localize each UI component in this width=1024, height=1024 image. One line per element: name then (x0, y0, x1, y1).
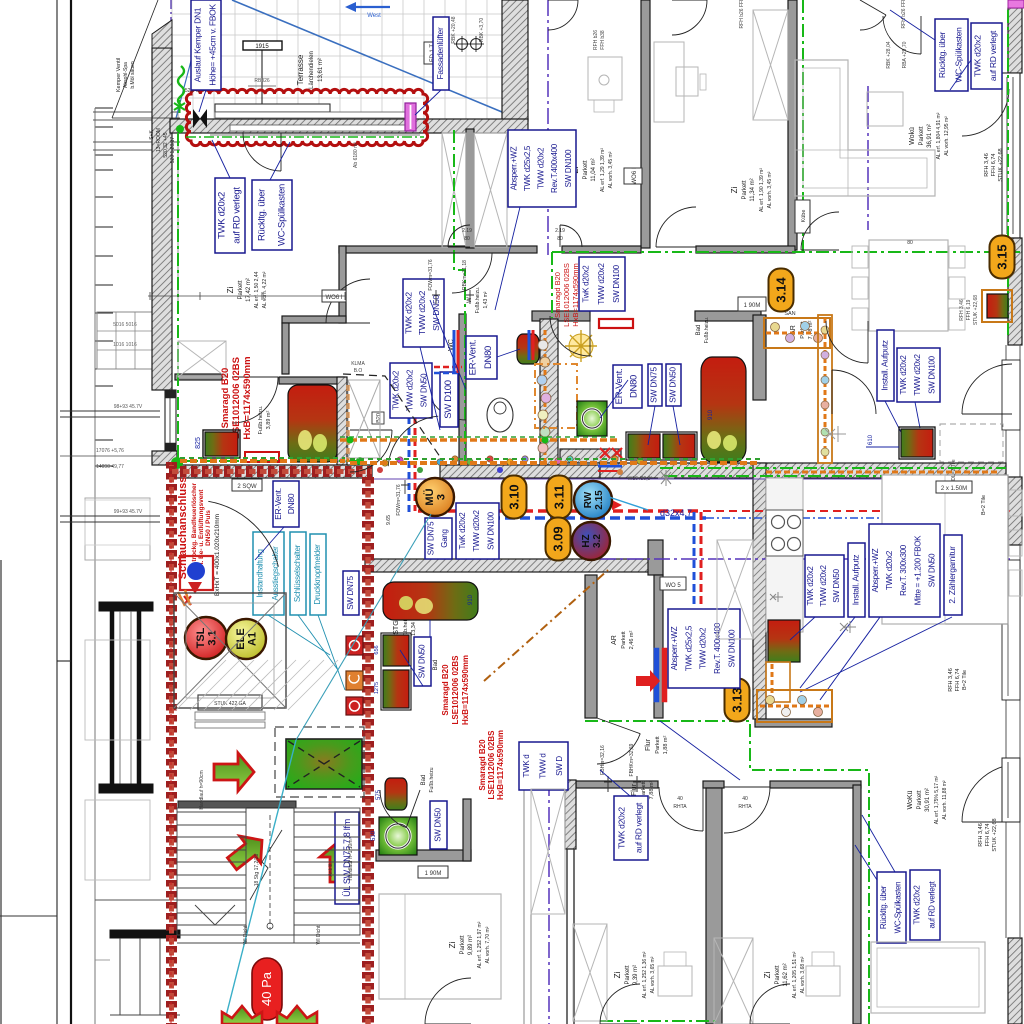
svg-text:Bad: Bad (696, 325, 702, 336)
pipe band right bath top (766, 471, 1000, 474)
Kuebe box (795, 200, 810, 233)
svg-text:AL erf. 1,50 2,44: AL erf. 1,50 2,44 (254, 271, 260, 308)
svg-text:Parkett: Parkett (919, 126, 925, 145)
bottom green arrows partial (222, 1006, 262, 1024)
AR door arc (597, 734, 640, 764)
WO6 box (322, 290, 346, 302)
svg-text:SW D: SW D (555, 756, 564, 776)
svg-text:AL vorh. 3,68 m²: AL vorh. 3,68 m² (800, 956, 806, 993)
orange dashed diagonal (484, 570, 608, 681)
svg-text:80: 80 (907, 240, 913, 246)
UEL box (335, 812, 359, 904)
svg-text:HxB=1174x590mm: HxB=1174x590mm (242, 356, 253, 439)
svg-text:TWK d20x2: TWK d20x2 (216, 192, 227, 239)
svg-text:98+93 45.7V: 98+93 45.7V (114, 404, 143, 410)
red grab bar (599, 319, 633, 328)
pipes risers multicolor at shaft (347, 385, 350, 462)
svg-text:Antritt: Antritt (328, 863, 334, 877)
washing machine bottom (379, 817, 417, 855)
svg-text:Druckknopfmelder: Druckknopfmelder (313, 544, 322, 605)
svg-text:WO6 I: WO6 I (632, 167, 638, 184)
right bath door arc (832, 370, 876, 414)
shower area dashes right bath (940, 424, 1003, 462)
window in left wall (165, 390, 176, 451)
svg-text:Instandhaltung: Instandhaltung (256, 549, 265, 597)
MUE sphere (0, 0, 1, 1)
hall orange pipe band (340, 438, 618, 442)
svg-text:SW D100: SW D100 (443, 380, 454, 419)
svg-text:Handlauf h=1,10m: Handlauf h=1,10m (348, 839, 354, 880)
svg-text:TWW d20x2: TWW d20x2 (472, 509, 481, 551)
svg-text:1275: 1275 (374, 682, 380, 694)
door arcs bottom rooms (659, 787, 703, 831)
bottom center pier (565, 780, 576, 849)
svg-text:RFH b26: RFH b26 (593, 30, 599, 50)
sofa bottom right (871, 942, 985, 1013)
svg-text:RHTA: RHTA (673, 804, 687, 810)
bottom rooms divider (706, 788, 722, 1024)
svg-text:Parkett: Parkett (917, 790, 923, 809)
wall left exterior upper (152, 48, 172, 390)
dim marks corridor bottom (401, 480, 409, 494)
kitchen leaders (790, 617, 815, 640)
svg-text:TWW d20x2: TWW d20x2 (597, 262, 606, 304)
wall right below window (1008, 238, 1022, 345)
bathtub center (701, 357, 746, 462)
svg-text:TWK d20x2: TWK d20x2 (617, 807, 627, 849)
svg-text:AL erf. 1,90 1,39 m²: AL erf. 1,90 1,39 m² (759, 168, 765, 212)
dim marks near WC (466, 290, 474, 304)
bed room2 (753, 10, 788, 120)
kemper leader (112, 0, 158, 118)
vanity band right bath (764, 318, 830, 348)
HZ sphere (0, 0, 1, 1)
svg-text:STUK +22,68: STUK +22,68 (992, 818, 998, 851)
svg-text:AL vorh. 3,45 m²: AL vorh. 3,45 m² (767, 171, 773, 208)
svg-text:Kemper Ventil: Kemper Ventil (116, 58, 122, 92)
svg-text:AR: AR (611, 635, 618, 645)
B20 tag (372, 412, 384, 424)
svg-text:TWK d25x2,5: TWK d25x2,5 (684, 625, 693, 671)
ER-Vent DN80 box center-left (466, 336, 497, 379)
pipe band corridor 460 (350, 461, 760, 465)
AR room walls (648, 540, 663, 575)
box TWK auf RD verlegt (215, 178, 245, 253)
top rooms divider walls (641, 0, 650, 248)
svg-text:mit trockg. Bandfeuerlöscher: mit trockg. Bandfeuerlöscher (191, 482, 198, 573)
stairs (177, 808, 360, 943)
svg-text:RBK +28,04: RBK +28,04 (886, 41, 892, 68)
svg-text:TWK d20x2: TWK d20x2 (404, 292, 414, 334)
svg-text:2 SQW: 2 SQW (237, 484, 257, 490)
kitchen sink (768, 620, 800, 662)
svg-text:TWK d20x2: TWK d20x2 (885, 550, 894, 590)
svg-text:Gang: Gang (440, 529, 449, 547)
thin purple line corridor (374, 478, 1006, 480)
svg-text:DN50 / Puls: DN50 / Puls (205, 510, 212, 546)
boxes rueck top right (935, 19, 968, 91)
svg-text:13=ROOM: 13=ROOM (156, 128, 162, 152)
svg-text:TWK d25x2,5: TWK d25x2,5 (523, 145, 532, 191)
svg-text:2,46 m²: 2,46 m² (629, 631, 635, 650)
bathtub bottom-center bath (383, 582, 478, 620)
svg-text:HxB=1174x590mm: HxB=1174x590mm (496, 730, 505, 800)
SW D100 box (440, 372, 458, 427)
svg-text:825: 825 (195, 437, 202, 449)
svg-text:3.13: 3.13 (730, 687, 745, 712)
washing machine center (577, 401, 607, 436)
svg-text:STUK 422 GA: STUK 422 GA (214, 701, 246, 707)
svg-text:Parkett: Parkett (655, 736, 661, 754)
svg-text:Parkett: Parkett (742, 180, 748, 199)
svg-text:3: 3 (436, 494, 448, 500)
svg-text:TWW d20x2: TWW d20x2 (819, 564, 828, 606)
ELE sphere (0, 0, 1, 1)
svg-text:WC-Spülkasten: WC-Spülkasten (894, 882, 903, 934)
svg-text:9.65: 9.65 (386, 515, 392, 525)
svg-text:Flur: Flur (631, 783, 638, 796)
svg-text:SW DN100: SW DN100 (928, 355, 937, 393)
north arrow (345, 2, 356, 12)
svg-text:Schlauchanschluss: Schlauchanschluss (177, 477, 189, 580)
svg-text:13,61 m²: 13,61 m² (318, 58, 324, 82)
svg-text:MÜ: MÜ (423, 488, 436, 505)
svg-text:n. Be- u. Entlüftungsvent: n. Be- u. Entlüftungsvent (198, 489, 205, 567)
svg-text:Fußb.heizu.: Fußb.heizu. (704, 317, 710, 343)
terrace tile grid (172, 0, 508, 119)
svg-text:Rückltg. über: Rückltg. über (256, 189, 267, 241)
svg-text:RHTA: RHTA (738, 804, 752, 810)
svg-text:auf RD verlegt: auf RD verlegt (927, 880, 936, 928)
svg-text:3.09: 3.09 (551, 526, 566, 551)
arc wokü entry (962, 89, 1009, 136)
small riser hatch near wall x537 (528, 330, 531, 360)
svg-text:AL vorh. 11,88 m²: AL vorh. 11,88 m² (942, 780, 948, 820)
svg-text:West: West (367, 13, 381, 19)
40 Pa pill (252, 958, 282, 1020)
svg-text:2. Zählergarnitur: 2. Zählergarnitur (947, 546, 957, 604)
svg-text:FOWm=31,76: FOWm=31,76 (428, 259, 434, 290)
red scalloped zone terrace wall (186, 89, 427, 145)
door arcs top rooms (656, 207, 696, 247)
svg-text:LSE1012006 02BS: LSE1012006 02BS (487, 730, 496, 800)
cyan line RW (609, 497, 648, 510)
svg-text:Absohl-Spa: Absohl-Spa (123, 62, 129, 88)
svg-text:656: 656 (374, 645, 380, 654)
svg-text:BxHxT = 400x1.020x210mm: BxHxT = 400x1.020x210mm (214, 514, 221, 596)
svg-text:Smaragd B20: Smaragd B20 (441, 664, 450, 716)
svg-text:Kübe: Kübe (801, 210, 807, 223)
coffee table (867, 92, 903, 126)
svg-text:Absperr.+WZ: Absperr.+WZ (871, 548, 880, 592)
svg-text:Flur: Flur (645, 738, 652, 751)
parapet lintels inside scallop (215, 104, 330, 112)
hall riser dashes (434, 366, 462, 369)
kitchen shaft orange (766, 662, 790, 702)
svg-text:d32x4,7: d32x4,7 (660, 508, 692, 518)
door arc bottom bath (380, 790, 406, 828)
svg-text:Handlauf h=90cm: Handlauf h=90cm (199, 770, 205, 809)
svg-text:11,62 m²: 11,62 m² (783, 963, 789, 986)
SW DN50 box center (666, 364, 681, 406)
window right top (1002, 73, 1020, 238)
svg-text:1,88 m²: 1,88 m² (663, 736, 669, 755)
svg-text:17,42 m²: 17,42 m² (246, 278, 252, 302)
bottom-center room bed (379, 894, 501, 999)
svg-text:WO 5: WO 5 (665, 583, 681, 589)
magenta top right corner (1008, 0, 1024, 8)
dining table (869, 240, 948, 331)
door arc left apartment inner (232, 377, 278, 423)
svg-text:SW DN50: SW DN50 (418, 644, 427, 678)
svg-text:SW DN50: SW DN50 (667, 367, 677, 403)
lintel beam symbol (243, 41, 282, 50)
svg-text:ER-Vent.: ER-Vent. (273, 488, 283, 520)
box Rueckltg ueber WC (252, 180, 292, 250)
sheet frame lines (56, 0, 58, 1024)
svg-text:7,88 m²: 7,88 m² (649, 781, 655, 800)
WO5 box (660, 577, 686, 590)
svg-text:Höhe= +45cm v. FBOK: Höhe= +45cm v. FBOK (207, 4, 217, 86)
svg-text:WC-Spülkasten: WC-Spülkasten (954, 27, 964, 83)
right entry big arc (962, 364, 1012, 414)
svg-text:3.15: 3.15 (995, 244, 1010, 269)
svg-text:AL vorh. 12,95 m²: AL vorh. 12,95 m² (944, 116, 950, 156)
orange pipe band corridor of flat (180, 459, 345, 463)
svg-text:TWW d20x2: TWW d20x2 (417, 290, 427, 335)
svg-text:b.Möl sauen: b.Möl sauen (130, 61, 136, 88)
right wall bottom hatch (1008, 938, 1022, 1024)
svg-text:LSE1012006 02BS: LSE1012006 02BS (451, 655, 460, 725)
svg-text:5016 5016: 5016 5016 (113, 322, 137, 328)
svg-text:B20: B20 (376, 413, 382, 423)
svg-text:910: 910 (708, 409, 714, 420)
svg-text:Mitte = +1.200 FBOK: Mitte = +1.200 FBOK (913, 535, 922, 605)
svg-text:SW DN50: SW DN50 (928, 553, 937, 587)
SW DN75 box stairwell (343, 571, 359, 615)
badge 3.14 (769, 269, 794, 312)
svg-text:Absperr.+WZ: Absperr.+WZ (509, 146, 518, 190)
TWK box bottom left (614, 796, 648, 860)
ER-Vent DN80 box center (613, 365, 642, 408)
svg-text:2.19: 2.19 (555, 228, 565, 234)
svg-text:1 90M: 1 90M (425, 871, 442, 877)
svg-text:FOWm=31,76: FOWm=31,76 (396, 484, 402, 515)
hall door arc (388, 416, 438, 466)
svg-text:WoKü: WoKü (907, 790, 914, 809)
190M box (418, 866, 448, 878)
level crosshairs (457, 39, 468, 50)
svg-text:510: 510 (371, 830, 377, 841)
svg-text:AL vorh. 3,65 m²: AL vorh. 3,65 m² (650, 956, 656, 993)
svg-text:Terrasse: Terrasse (296, 54, 305, 85)
svg-text:FFH 6,74: FFH 6,74 (991, 154, 997, 177)
svg-text:TWK d20x2: TWK d20x2 (912, 885, 921, 925)
svg-text:FFH b38: FFH b38 (600, 30, 606, 50)
washbasins bottom-center bath (383, 635, 409, 666)
svg-text:Fußb.heizu.: Fußb.heizu. (258, 405, 264, 435)
svg-text:KLMA: KLMA (351, 361, 365, 367)
badge 3.13 (725, 679, 750, 722)
svg-text:520 1,28/17: 520 1,28/17 (170, 137, 176, 164)
svg-text:3.14: 3.14 (774, 277, 789, 303)
terrace right wall (502, 0, 528, 121)
bath door arc (550, 316, 590, 356)
extra fixture dots corridor (382, 460, 388, 466)
box Fassadenluefter (433, 17, 449, 90)
elevation line stubs (95, 107, 113, 109)
svg-text:Zi: Zi (226, 286, 235, 293)
snowflake symbol (658, 470, 674, 486)
hall door arcs (350, 430, 392, 472)
svg-text:TWW d20x2: TWW d20x2 (406, 369, 415, 411)
svg-text:11,04 m²: 11,04 m² (591, 158, 597, 181)
svg-text:FFH 6,74: FFH 6,74 (955, 669, 961, 692)
svg-text:TWK d20x2: TWK d20x2 (899, 355, 908, 395)
corridor bottom wall (365, 559, 660, 572)
vanity bottom kitchen area (757, 690, 832, 722)
svg-text:Parkett: Parkett (621, 631, 627, 649)
terrace roof diagonal (232, 0, 502, 112)
asterisk marks (840, 621, 856, 633)
svg-text:40: 40 (677, 796, 683, 802)
svg-text:AL erf. 1,252 1,97 m²: AL erf. 1,252 1,97 m² (477, 921, 483, 968)
svg-text:1915: 1915 (255, 44, 269, 50)
svg-text:RBK +3,70: RBK +3,70 (479, 18, 485, 43)
room2 desk (654, 42, 684, 122)
wardrobes flanking wall (442, 133, 466, 247)
shaft hatch lines (176, 660, 338, 710)
pipe cluster corridor left end (600, 448, 622, 458)
svg-text:2.19: 2.19 (462, 228, 472, 234)
svg-text:Zi: Zi (763, 971, 772, 978)
svg-text:TWK d: TWK d (522, 755, 531, 778)
svg-text:AL erf. 1,29 1,39 m²: AL erf. 1,29 1,39 m² (600, 148, 606, 192)
svg-text:SW DN50: SW DN50 (832, 568, 841, 602)
svg-text:LSE1012006 02BS: LSE1012006 02BS (562, 263, 571, 327)
svg-text:AL vorh. 3,45 m²: AL vorh. 3,45 m² (608, 151, 614, 188)
vanity basins center (628, 434, 660, 458)
svg-text:Parkett: Parkett (775, 965, 781, 984)
svg-text:Bad: Bad (421, 775, 427, 786)
svg-text:Zi: Zi (448, 941, 457, 948)
svg-text:AL erf. 1,205 1,51 m²: AL erf. 1,205 1,51 m² (792, 951, 798, 998)
towel rail red outline (245, 452, 279, 462)
box Absperr top (508, 130, 576, 207)
box auslauf kemper (191, 0, 221, 90)
green arrow right (214, 753, 254, 791)
red dashed line left column (170, 462, 172, 1024)
wardrobe bottom center (531, 789, 565, 914)
svg-text:3,89 m²: 3,89 m² (266, 411, 272, 430)
svg-text:30,91 m²: 30,91 m² (925, 788, 931, 812)
top rooms bottom wall (339, 246, 537, 253)
kitchen boxes (805, 555, 844, 617)
svg-text:2.15: 2.15 (594, 490, 605, 510)
cyan leaders (268, 615, 330, 655)
window bottom right (1002, 758, 1020, 822)
left elevation drawing (94, 108, 96, 1024)
svg-text:auf RD verlegt: auf RD verlegt (231, 187, 242, 244)
svg-text:1 90M: 1 90M (744, 303, 761, 309)
svg-text:SW DN50: SW DN50 (434, 807, 443, 841)
fire wall checker stairwell (166, 462, 177, 1024)
svg-text:RFH 3,46: RFH 3,46 (948, 668, 954, 692)
svg-text:RFH b26 FFH b38: RFH b26 FFH b38 (739, 0, 745, 28)
kitchen corner unit right (982, 290, 1012, 322)
2x150 box (936, 481, 972, 493)
svg-text:TWK d20x2: TWK d20x2 (392, 370, 401, 410)
toilet bottom bath (385, 778, 407, 810)
svg-text:1,43 m²: 1,43 m² (483, 291, 489, 308)
ER-Vent box stairwell (273, 481, 299, 527)
svg-text:9,89 m²: 9,89 m² (468, 935, 474, 955)
svg-text:Parkett: Parkett (238, 280, 244, 299)
svg-text:RW: RW (583, 491, 594, 508)
svg-text:Rückltg. über: Rückltg. über (937, 31, 947, 78)
hall wardrobe (348, 380, 380, 458)
dashed duct route (343, 374, 449, 470)
svg-text:1016 1016: 1016 1016 (113, 342, 137, 348)
leader lines top boxes (420, 347, 440, 430)
kitchen right wall hatch (1008, 477, 1022, 545)
610 dim (866, 446, 899, 448)
svg-text:80: 80 (464, 236, 470, 242)
right bath vertical install band (818, 315, 832, 463)
svg-text:DN80: DN80 (286, 493, 296, 514)
svg-text:Ausstiegschalter: Ausstiegschalter (271, 546, 280, 601)
SW DN50 box bottom bath (430, 801, 447, 849)
svg-text:3.10: 3.10 (507, 484, 522, 509)
stairwell door arc (208, 501, 278, 566)
svg-text:910: 910 (468, 594, 474, 605)
WC toilet (517, 334, 539, 364)
TWK TWW SW box mid (579, 257, 625, 311)
svg-text:B.O: B.O (354, 368, 363, 374)
svg-text:TWW d20x2: TWW d20x2 (537, 147, 546, 189)
svg-text:36,91 m²: 36,91 m² (927, 124, 933, 148)
svg-text:Rev.T. 300x300: Rev.T. 300x300 (899, 544, 908, 596)
stair break line (250, 830, 282, 900)
green arrow NE (227, 836, 262, 870)
svg-text:AL erf. 1,75% 5,17 m²: AL erf. 1,75% 5,17 m² (934, 775, 940, 824)
svg-text:RFH b26 FFH b38: RFH b26 FFH b38 (901, 0, 907, 28)
svg-text:WI Dicht: WI Dicht (316, 925, 322, 945)
elevation dark window (99, 602, 153, 611)
kemper squiggle (178, 66, 184, 105)
blue boxes bottom bath partial (519, 742, 568, 790)
bathtub left apartment (288, 385, 337, 462)
svg-text:AL erf. 1,804 4,91 m²: AL erf. 1,804 4,91 m² (936, 112, 942, 159)
svg-text:SW DN100: SW DN100 (728, 629, 737, 667)
wardrobe near kitchen (717, 540, 753, 639)
svg-text:Auslauf Kemper DN1: Auslauf Kemper DN1 (192, 7, 202, 82)
svg-text:RBKm=31,18: RBKm=31,18 (462, 260, 468, 290)
bowtie valve (193, 109, 200, 128)
svg-text:Fassadenlüfter: Fassadenlüfter (435, 27, 445, 79)
bed bottom room (714, 938, 753, 1024)
svg-text:FBHKm=32,69: FBHKm=32,69 (629, 743, 635, 776)
svg-text:TSL: TSL (195, 627, 207, 648)
svg-text:Ab 6180 m²: Ab 6180 m² (353, 142, 359, 168)
svg-text:SAN: SAN (784, 311, 795, 317)
svg-text:LSE1012006 02BS: LSE1012006 02BS (231, 357, 242, 439)
svg-text:11,34 m²: 11,34 m² (750, 178, 756, 201)
orange dashed shaft zone (535, 364, 577, 428)
TWK TWW SW box corridor (456, 503, 499, 559)
svg-text:TWW d20x2: TWW d20x2 (913, 353, 922, 395)
dim row left mid (60, 455, 160, 457)
